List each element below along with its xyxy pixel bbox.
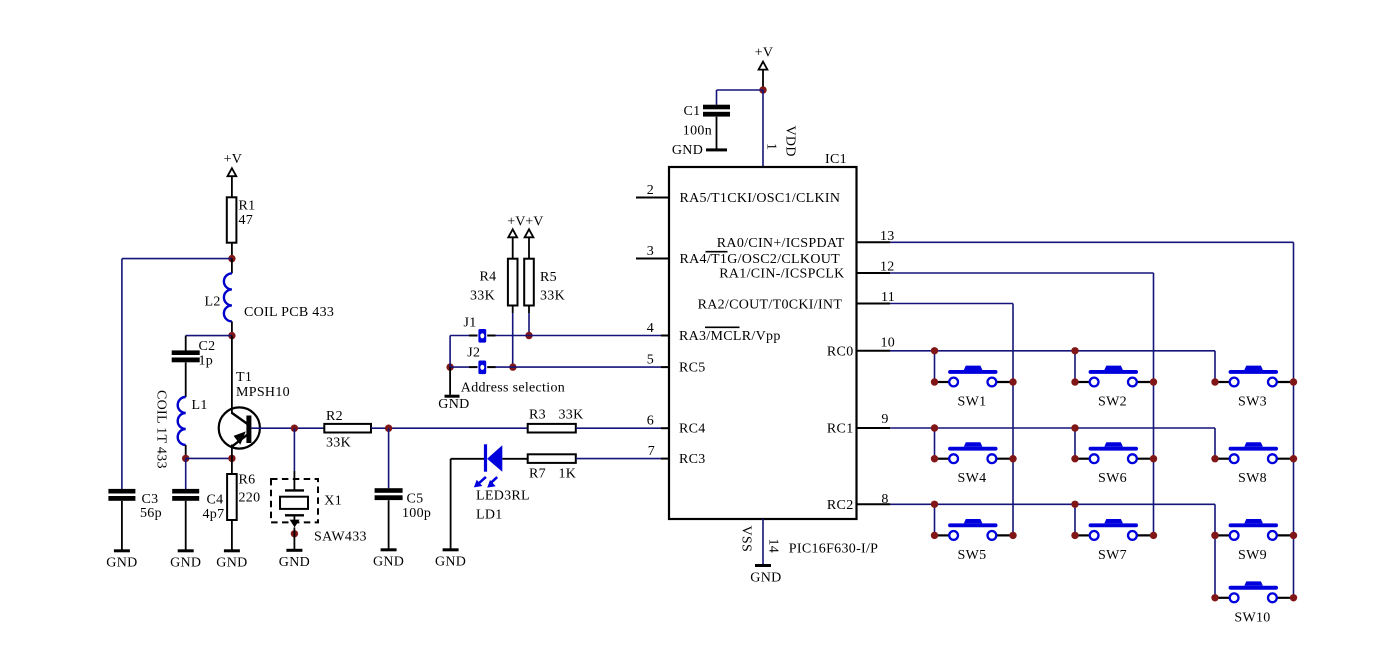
pin 12 stub — [857, 272, 891, 274]
ground for C4 — [178, 549, 194, 552]
pin 7 stub — [661, 458, 669, 460]
wire RC0 row — [890, 350, 1215, 352]
svg-text:L1: L1 — [192, 398, 208, 413]
svg-text:RA5/T1CKI/OSC1/CLKIN: RA5/T1CKI/OSC1/CLKIN — [680, 191, 841, 206]
resistor R2 — [324, 424, 371, 433]
ground for IC1 — [755, 564, 771, 567]
svg-text:SW5: SW5 — [958, 548, 987, 563]
junction R1/L2/C3 node — [228, 255, 235, 262]
J2 right pin stub — [487, 366, 495, 368]
resistor R4 — [508, 259, 518, 306]
wire pin 13 row — [890, 241, 1294, 243]
svg-text:56p: 56p — [140, 506, 162, 521]
svg-text:R2: R2 — [326, 409, 343, 424]
svg-text:R3: R3 — [529, 408, 546, 423]
pin 3 stub — [636, 258, 669, 260]
junction R5/pin4 row — [525, 332, 532, 339]
wire base to R2 — [251, 427, 324, 429]
wire R3 to pin 6 — [576, 427, 661, 429]
svg-text:RA3/MCLR/Vpp: RA3/MCLR/Vpp — [679, 329, 781, 344]
svg-text:COIL PCB 433: COIL PCB 433 — [244, 305, 334, 320]
wire J1 corner down — [449, 336, 451, 368]
svg-text:C1: C1 — [684, 104, 701, 119]
wire C2 to L1 — [185, 362, 187, 397]
svg-text:R1: R1 — [239, 199, 256, 214]
wire RC0 down to SW3 — [1214, 351, 1216, 382]
wire X1 to ground — [293, 527, 295, 549]
wire down to C4 — [185, 458, 187, 489]
svg-text:LD1: LD1 — [476, 508, 503, 523]
svg-text:GND: GND — [216, 556, 247, 571]
junction R4/pin5 row — [509, 363, 516, 370]
svg-text:1p: 1p — [199, 354, 214, 369]
svg-text:C5: C5 — [407, 492, 424, 507]
wire to R6 — [231, 458, 233, 474]
junction RC1 row x=934.5 — [931, 424, 938, 431]
wire emitter row — [186, 457, 232, 459]
svg-text:+V+V: +V+V — [507, 215, 543, 230]
wire J1 row left — [450, 335, 469, 337]
svg-text:C3: C3 — [142, 492, 159, 507]
svg-text:R4: R4 — [480, 270, 497, 285]
svg-text:100p: 100p — [402, 506, 431, 521]
pin 4 stub — [661, 335, 669, 337]
wire node to L2 — [231, 259, 233, 274]
svg-text:L2: L2 — [205, 295, 221, 310]
svg-text:IC1: IC1 — [825, 152, 847, 167]
svg-text:SW1: SW1 — [958, 395, 987, 410]
pin 9 stub — [857, 427, 891, 429]
wire pin 11 row — [890, 303, 1013, 305]
svg-text:Address selection: Address selection — [461, 381, 565, 396]
svg-text:10: 10 — [881, 336, 896, 351]
switch SW10 — [1229, 586, 1278, 590]
wire to ground — [449, 367, 451, 395]
capacitor C2 — [172, 350, 200, 355]
svg-text:+V: +V — [755, 46, 774, 61]
svg-text:5: 5 — [647, 353, 654, 368]
svg-text:RC3: RC3 — [679, 452, 706, 467]
coil L2 — [224, 273, 232, 321]
svg-text:SW4: SW4 — [958, 471, 987, 486]
pin 13 stub — [857, 241, 891, 243]
svg-text:SW10: SW10 — [1234, 610, 1270, 625]
svg-text:R5: R5 — [540, 270, 557, 285]
power +V for R5 — [525, 229, 534, 237]
svg-text:3: 3 — [647, 244, 654, 259]
svg-text:2: 2 — [647, 183, 654, 198]
svg-text:GND: GND — [106, 556, 137, 571]
switch SW1 — [948, 370, 997, 374]
svg-text:PIC16F630-I/P: PIC16F630-I/P — [789, 542, 878, 557]
wire column pin 11 — [1012, 304, 1014, 536]
wire R1 to node — [231, 243, 233, 259]
wire LED anode lead — [451, 458, 485, 460]
svg-text:MPSH10: MPSH10 — [236, 385, 290, 400]
svg-text:GND: GND — [750, 571, 781, 586]
power +V main +V — [759, 62, 768, 70]
wire LED to R7 — [502, 458, 527, 460]
svg-text:GND: GND — [435, 555, 466, 570]
wire node to C2 — [186, 335, 232, 337]
wire R7 to pin 7 — [576, 458, 661, 460]
pin 5 stub — [661, 366, 669, 368]
LED LD1 LED3RL — [474, 444, 502, 487]
switch SW8 — [1229, 447, 1278, 451]
resistor R7 — [528, 454, 576, 463]
transistor T1 MPSH10 — [219, 407, 260, 448]
wire C1 top lead — [716, 90, 718, 105]
svg-text:SW6: SW6 — [1098, 471, 1127, 486]
ground for X1 — [286, 549, 302, 552]
svg-text:33K: 33K — [540, 289, 565, 304]
junction J2 row/gnd branch — [446, 363, 453, 370]
ground for C5 — [381, 548, 397, 551]
coil L1 — [178, 397, 186, 445]
junction RC2 column SW9 — [1211, 532, 1218, 539]
wire RC2 down to SW9/SW10 — [1214, 504, 1216, 598]
wire +V to node — [762, 70, 764, 90]
stub RC0 to switch at x=934.5 — [934, 351, 936, 382]
capacitor C3 — [108, 489, 135, 494]
svg-text:GND: GND — [373, 555, 404, 570]
ground for jumpers — [445, 395, 460, 398]
capacitor C5 — [375, 488, 403, 493]
wire R5 to J1 row — [528, 313, 530, 336]
junction RC2 row x=934.5 — [931, 501, 938, 508]
svg-text:C4: C4 — [207, 493, 224, 508]
svg-text:RA0/CIN+/ICSPDAT: RA0/CIN+/ICSPDAT — [717, 236, 845, 251]
resistor R6 — [227, 474, 237, 520]
switch SW7 — [1089, 523, 1138, 527]
wire column pin 13 — [1293, 242, 1295, 598]
stub RC2 to switch at x=1075 — [1074, 504, 1076, 535]
svg-text:+V: +V — [224, 152, 243, 167]
dashed box around X1 — [271, 479, 318, 522]
power +V for R4 — [508, 229, 517, 237]
svg-text:J1: J1 — [464, 316, 477, 331]
svg-text:RC2: RC2 — [827, 498, 854, 513]
junction L2/C2/collector — [228, 332, 235, 339]
svg-text:4p7: 4p7 — [203, 507, 225, 522]
wire to C2 top — [185, 336, 187, 351]
svg-text:SW3: SW3 — [1238, 395, 1267, 410]
wire RC1 down to SW8 — [1214, 428, 1216, 459]
wire node to C3 branch — [122, 258, 232, 260]
pin 6 stub — [661, 427, 669, 429]
stub RC1 to switch at x=1075 — [1074, 428, 1076, 459]
J2 left pin stub — [469, 366, 478, 368]
stub RC2 to switch at x=934.5 — [934, 504, 936, 535]
overline T1G — [706, 251, 728, 253]
wire LED branch to ground — [450, 459, 452, 549]
svg-text:220: 220 — [239, 491, 261, 506]
ground for R6 — [224, 549, 240, 552]
wire R6 to ground — [231, 520, 233, 550]
junction emitter/R6 — [228, 455, 235, 462]
svg-text:COIL 1T 433: COIL 1T 433 — [154, 390, 169, 469]
wire J2 row left — [450, 366, 469, 368]
svg-text:4: 4 — [647, 321, 654, 336]
junction RC0 row x=1075 — [1071, 347, 1078, 354]
pin 11 stub — [857, 303, 891, 305]
svg-text:47: 47 — [239, 213, 254, 228]
svg-text:GND: GND — [170, 556, 201, 571]
svg-text:GND: GND — [672, 143, 703, 158]
wire node to C1 — [717, 89, 764, 91]
wire J1 row to pin 4 — [496, 335, 662, 337]
wire L1 to emitter row — [185, 445, 187, 458]
svg-text:100n: 100n — [683, 123, 712, 138]
svg-text:J2: J2 — [467, 346, 480, 361]
junction L1/C4/emitter row — [182, 455, 189, 462]
capacitor C4 — [172, 489, 199, 494]
power +V for R1 — [228, 168, 237, 176]
jumper J1 — [478, 329, 486, 343]
ground for C1 — [706, 148, 727, 151]
ground for C3 — [114, 549, 130, 552]
junction base/X1 — [291, 425, 298, 432]
svg-text:X1: X1 — [324, 494, 342, 509]
resistor R1 — [227, 197, 237, 242]
wire L2 to collector node — [231, 321, 233, 335]
wire R2 to R3 — [371, 427, 528, 429]
wire to X1 electrode — [293, 471, 295, 490]
switch SW5 — [948, 523, 997, 527]
junction RC2 row x=1075 — [1071, 501, 1078, 508]
svg-text:GND: GND — [438, 397, 469, 412]
jumper J2 — [478, 361, 486, 375]
wire column pin 12 — [1153, 273, 1155, 535]
svg-text:RC5: RC5 — [679, 361, 706, 376]
svg-text:9: 9 — [881, 412, 888, 427]
J1 left pin stub — [469, 335, 478, 337]
wire pin 14 VSS to ground — [762, 519, 764, 564]
wire R4 to J2 row — [512, 313, 514, 367]
pin 10 stub — [857, 350, 891, 352]
svg-text:33K: 33K — [470, 289, 495, 304]
crystal X1 SAW433 — [280, 490, 308, 527]
overline MCLR — [705, 326, 740, 328]
wire C1 to ground — [716, 117, 718, 149]
switch SW6 — [1089, 447, 1138, 451]
switch SW3 — [1229, 370, 1278, 374]
svg-text:R6: R6 — [239, 473, 256, 488]
wire RC1 row — [890, 427, 1215, 429]
wire R5 lead — [528, 306, 530, 314]
svg-text:33K: 33K — [559, 408, 584, 423]
svg-text:R7: R7 — [529, 467, 546, 482]
svg-text:RA4/T1G/OSC2/CLKOUT: RA4/T1G/OSC2/CLKOUT — [680, 252, 841, 267]
wire +V to R4 — [512, 237, 514, 258]
svg-text:RA1/CIN-/ICSPCLK: RA1/CIN-/ICSPCLK — [719, 267, 844, 282]
svg-text:VSS: VSS — [739, 526, 754, 553]
wire R4 lead — [512, 306, 514, 314]
svg-text:33K: 33K — [326, 436, 351, 451]
junction +V/C1 — [759, 86, 766, 93]
junction R2/C5 — [385, 425, 392, 432]
svg-text:RA2/COUT/T0CKI/INT: RA2/COUT/T0CKI/INT — [698, 298, 843, 313]
wire base node down to X1 — [293, 428, 295, 471]
wire RC2 row — [890, 503, 1215, 505]
junction RC0 row x=934.5 — [931, 347, 938, 354]
wire C3 to ground — [121, 501, 123, 550]
pin 2 stub — [636, 197, 669, 199]
switch SW2 — [1089, 370, 1138, 374]
switch SW9 — [1229, 523, 1278, 527]
stub RC1 to switch at x=934.5 — [934, 428, 936, 459]
wire J2 row to pin 5 — [496, 366, 662, 368]
svg-text:RC4: RC4 — [679, 422, 706, 437]
resistor R3 — [528, 424, 576, 433]
svg-text:1K: 1K — [559, 467, 577, 482]
svg-text:SW2: SW2 — [1098, 395, 1127, 410]
stub RC0 to switch at x=1075 — [1074, 351, 1076, 382]
svg-text:14: 14 — [766, 539, 781, 554]
svg-text:SAW433: SAW433 — [314, 530, 367, 545]
svg-text:T1: T1 — [236, 370, 252, 385]
wire pin 1 VDD — [762, 90, 764, 167]
op-amp IC1 PIC16F630-I/P box — [669, 167, 857, 519]
svg-text:LED3RL: LED3RL — [476, 489, 530, 504]
wire pin 12 row — [890, 272, 1154, 274]
J1 right pin stub — [487, 335, 495, 337]
resistor R5 — [524, 259, 534, 306]
svg-text:SW7: SW7 — [1098, 548, 1127, 563]
svg-text:1: 1 — [763, 143, 778, 150]
svg-text:8: 8 — [881, 492, 888, 507]
svg-text:SW8: SW8 — [1238, 471, 1267, 486]
svg-text:RC1: RC1 — [827, 422, 854, 437]
wire C3 branch vertical — [121, 259, 123, 489]
wire C4 to ground — [185, 501, 187, 550]
svg-text:C2: C2 — [199, 339, 216, 354]
svg-text:6: 6 — [647, 414, 654, 429]
wire C5 to ground — [388, 500, 390, 549]
svg-text:RC0: RC0 — [827, 345, 854, 360]
svg-text:VDD: VDD — [783, 126, 798, 157]
capacitor C1 — [703, 105, 730, 110]
junction RC1 row x=1075 — [1071, 424, 1078, 431]
wire +V to R1 — [231, 176, 233, 197]
pin 8 stub — [857, 503, 891, 505]
ground for LD1 — [443, 548, 459, 551]
svg-text:7: 7 — [648, 444, 655, 459]
svg-text:GND: GND — [279, 555, 310, 570]
wire +V to R5 — [528, 237, 530, 258]
svg-text:SW9: SW9 — [1238, 548, 1267, 563]
junction X1 ground lead — [291, 530, 298, 537]
wire base row down to C5 — [388, 428, 390, 488]
switch SW4 — [948, 447, 997, 451]
